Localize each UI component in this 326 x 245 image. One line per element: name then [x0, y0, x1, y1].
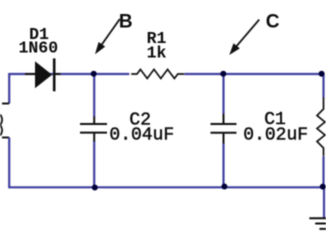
resistor R2 (right, cut off)	[317, 98, 325, 156]
wire stub from coil bottom	[2, 137, 9, 139]
coil L1 (cut off at left edge)	[0, 115, 2, 136]
wire top horizontal (node A to B to C to right)	[9, 73, 129, 75]
diode D1 cathode bar	[53, 58, 56, 91]
wire to ground	[323, 187, 325, 218]
wire node B to C2	[93, 74, 95, 117]
node bottom C junction dot	[221, 184, 227, 190]
wire C2 to bottom	[93, 141, 95, 187]
capacitor C2 bottom lead	[93, 133, 95, 142]
svg-text:1N60: 1N60	[18, 38, 58, 57]
arrow to node B	[95, 19, 120, 54]
capacitor C2 top lead	[93, 117, 95, 125]
wire stub to coil top	[2, 103, 9, 105]
node C junction dot	[220, 71, 226, 77]
wire node C to C1	[222, 74, 224, 114]
node bottom right junction dot	[320, 184, 326, 190]
node B junction dot	[91, 71, 97, 77]
diode D1 lead anode	[25, 73, 36, 75]
wire top right of R1	[185, 73, 324, 75]
diode D1 triangle	[36, 62, 52, 87]
svg-text:C: C	[266, 11, 280, 32]
ground	[309, 218, 326, 229]
capacitor C1 top plate	[211, 123, 237, 125]
capacitor C2 top plate	[80, 123, 107, 125]
diode D1 lead cathode	[56, 73, 61, 75]
capacitor C1 bottom lead	[223, 133, 225, 144]
wire left vertical lower	[8, 138, 10, 189]
wire left vertical upper	[8, 73, 10, 104]
arrow to node C	[229, 20, 259, 55]
capacitor C1 top lead	[223, 114, 225, 124]
capacitor C2 bottom plate	[80, 132, 107, 134]
svg-text:B: B	[119, 11, 133, 32]
svg-text:0.04uF: 0.04uF	[109, 126, 174, 146]
node top right junction dot	[319, 71, 325, 77]
node bottom B junction dot	[92, 185, 98, 191]
wire right vertical lower	[322, 156, 324, 187]
capacitor C1 bottom plate	[211, 132, 237, 134]
wire right vertical upper	[322, 74, 324, 98]
resistor R1	[131, 69, 184, 78]
wire C1 to bottom	[222, 143, 224, 187]
wire bottom horizontal	[9, 186, 323, 188]
svg-text:1k: 1k	[147, 43, 167, 62]
svg-text:0.02uF: 0.02uF	[243, 125, 308, 145]
